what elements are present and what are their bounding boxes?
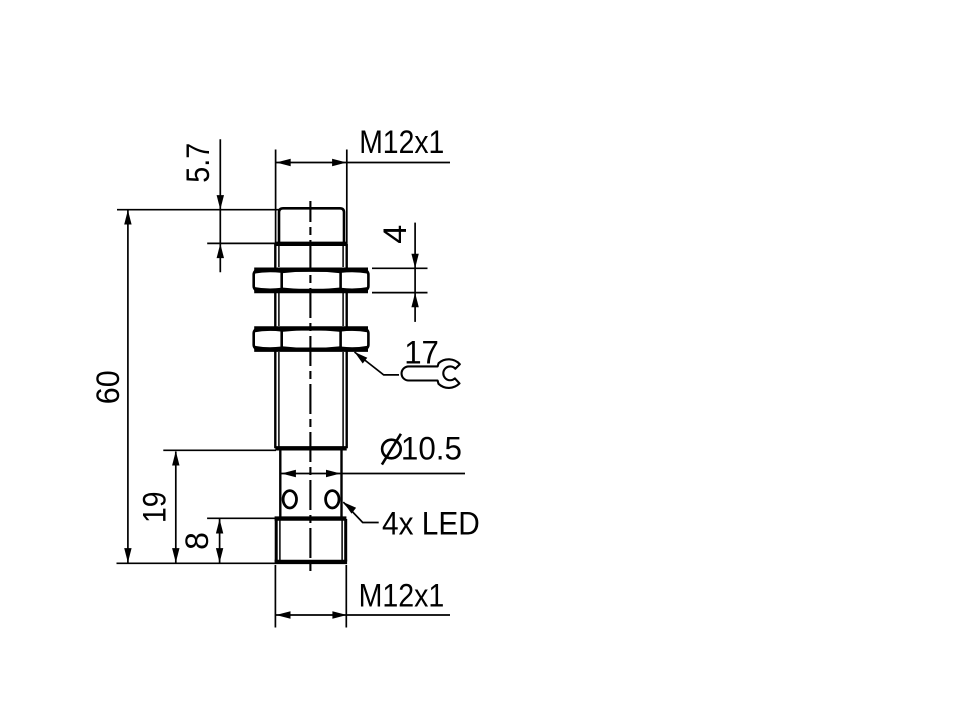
svg-text:4x LED: 4x LED	[382, 506, 480, 542]
svg-text:8: 8	[179, 532, 215, 550]
svg-text:M12x1: M12x1	[359, 124, 444, 160]
svg-text:17: 17	[404, 335, 439, 371]
svg-text:M12x1: M12x1	[359, 578, 445, 614]
svg-text:19: 19	[136, 491, 172, 523]
svg-text:4: 4	[377, 225, 413, 244]
svg-text:5.7: 5.7	[180, 143, 216, 183]
svg-text:60: 60	[90, 370, 126, 404]
svg-text:10.5: 10.5	[401, 430, 462, 466]
